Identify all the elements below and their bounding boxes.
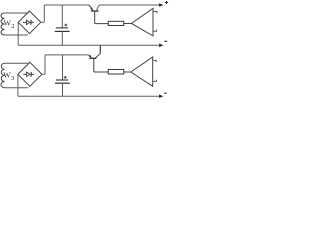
transistor Q2 emitter arrow [89, 55, 92, 58]
capacitor C1 top plate [56, 27, 68, 29]
transistor Q2 base lead down to resistor wire [94, 58, 108, 72]
diode cathode lead (row 2) [31, 73, 34, 75]
arrowhead bottom rail (row 1) [159, 44, 163, 48]
winding W2 (scallops) [1, 13, 4, 35]
regulator bottom pin stub (row 1) [153, 30, 157, 32]
diode triangle (row 2) [27, 72, 31, 76]
plus sign output (row 1) [165, 1, 168, 4]
capacitor C2 plus sign [64, 76, 67, 79]
minus sign output (row 2) [164, 92, 166, 94]
diode inside bridge (row 1): anode lead [23, 21, 26, 23]
regulator top pin stub (row 2) [153, 60, 157, 62]
bridge rectifier diamond (row 1) [18, 11, 41, 34]
wire resistor to regulator triangle (row 2) [124, 71, 131, 73]
winding W3 (scallops) [1, 63, 5, 87]
capacitor C1 top lead [61, 5, 63, 28]
capacitor C2 bottom lead [62, 83, 64, 96]
transistor Q2 collector wire from rail [88, 55, 92, 58]
wire: bridge left vertex down + bottom rail (row 1, 0V line) [18, 23, 159, 46]
winding W3 top lead wire [5, 62, 29, 64]
resistor R2 box [108, 70, 124, 75]
minus sign output (row 1) [164, 40, 167, 42]
capacitor C1 bottom lead [61, 31, 63, 45]
regulator triangle (row 2) [131, 57, 153, 86]
winding W3 bottom lead wire [5, 87, 29, 89]
transistor Q2 base bar [89, 57, 96, 59]
transistor Q1 collector wire from rail [88, 5, 93, 10]
wire: bridge right vertex up to top rail (row 2) [42, 55, 88, 74]
capacitor C2 top lead [62, 55, 64, 80]
transistor Q1 base bar [91, 10, 99, 12]
wire: row1 bottom rail down to row2 transistor (junction at x=100.3) [99, 45, 101, 53]
svg-text:W: W [3, 71, 11, 80]
diode cathode lead (row 1) [31, 21, 34, 23]
arrowhead top rail + output (row 1) [159, 3, 163, 7]
regulator top pin stub (row 1) [153, 11, 157, 13]
arrowhead bottom rail (row 2) [159, 94, 163, 98]
diode triangle (row 1) [26, 20, 30, 24]
capacitor C1 bottom plate [55, 30, 70, 32]
diode inside bridge (row 2): anode lead [23, 73, 26, 75]
resistor R1 box [108, 21, 124, 25]
wire: bridge right vertex up to top rail (row 1) [41, 5, 88, 22]
svg-text:3: 3 [11, 75, 15, 82]
svg-text:2: 2 [11, 23, 14, 30]
regulator triangle (row 1) [132, 8, 154, 36]
wire resistor to regulator triangle (row 1) [124, 23, 132, 25]
winding W2 top lead wire [5, 12, 29, 14]
diode cathode bar (row 1) [30, 20, 32, 25]
wire: bridge left vertex down + bottom rail (row 2) [18, 75, 160, 97]
regulator bottom pin stub (row 2) [153, 80, 157, 82]
bridge rectifier diamond (row 2) [18, 62, 42, 86]
transistor Q1 emitter arrow [90, 8, 93, 11]
transistor Q1 emitter wire to top rail [96, 5, 159, 11]
winding W2 bottom lead wire [5, 34, 28, 36]
capacitor C1 plus sign [65, 24, 68, 27]
diode cathode bar (row 2) [30, 72, 32, 77]
transistor Q1 base lead down to resistor wire [95, 11, 109, 24]
transistor Q2 emitter wire up to row1 bottom rail [95, 45, 100, 58]
capacitor C2 bottom plate [55, 82, 70, 84]
capacitor C2 top plate [56, 79, 68, 81]
